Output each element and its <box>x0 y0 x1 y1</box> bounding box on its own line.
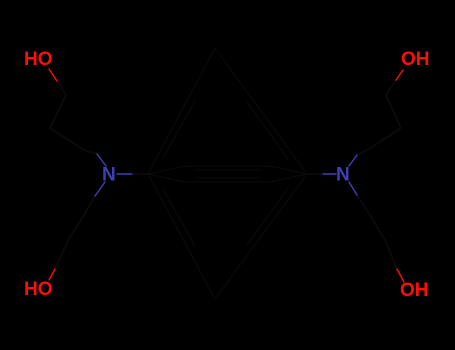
svg-text:N: N <box>102 165 116 186</box>
top-left C-N half bond (blue) <box>97 154 106 166</box>
right N-ring bond: dark half <box>307 173 322 175</box>
aromatic inner line middle bottom <box>196 177 259 179</box>
triptycene core: bond T-R <box>215 48 307 174</box>
triptycene core: bond B-R <box>215 174 307 299</box>
top-right C-N half bond (blue) <box>349 155 357 166</box>
bottom-right chain C-C bonds <box>357 195 397 269</box>
top-right O-C half bond (red) <box>396 70 403 80</box>
aromatic inner line lower-right wing <box>247 188 288 245</box>
bottom-left chain C-C bonds <box>55 196 95 269</box>
bottom-right O-C half bond (red) <box>397 269 404 282</box>
aromatic inner line upper-left wing <box>163 101 195 158</box>
triptycene core: bond T-L <box>148 48 215 174</box>
bottom-left C-N half bond (blue) <box>95 182 105 196</box>
aromatic inner line upper-right wing <box>247 102 288 159</box>
svg-text:HO: HO <box>24 279 53 300</box>
svg-text:OH: OH <box>401 49 430 70</box>
left N-ring bond: blue half <box>117 173 133 175</box>
triptycene core: bond B-L <box>148 174 215 299</box>
aromatic inner line middle top <box>196 169 259 171</box>
top-left chain C-C bonds <box>50 81 97 154</box>
top-left O-C half bond (red) <box>49 69 57 81</box>
top-right chain C-C bonds <box>357 80 401 155</box>
left N-ring bond: dark half <box>133 173 148 175</box>
bottom-right C-N half bond (blue) <box>349 182 357 195</box>
bottom-left O-C half bond (red) <box>49 269 55 280</box>
aromatic inner line lower-left wing <box>163 189 195 246</box>
svg-text:OH: OH <box>400 280 429 301</box>
triptycene middle ring hexagon <box>148 166 307 182</box>
svg-text:HO: HO <box>24 49 53 70</box>
right N-ring bond: blue half <box>322 173 336 175</box>
svg-text:N: N <box>336 165 350 186</box>
